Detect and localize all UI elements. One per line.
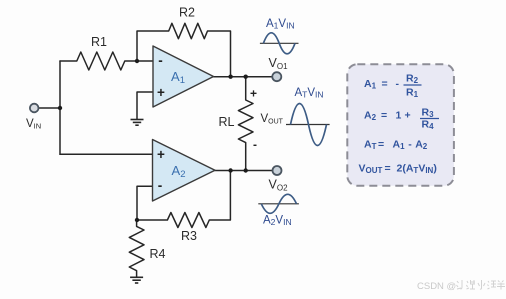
svg-text:+: + <box>157 85 165 100</box>
svg-text:-: - <box>396 78 400 90</box>
svg-text:=: = <box>385 163 391 175</box>
svg-text:-: - <box>158 53 163 68</box>
svg-text:+: + <box>250 87 257 101</box>
svg-text:A2VIN: A2VIN <box>263 215 292 228</box>
svg-text:R3: R3 <box>181 229 197 243</box>
svg-text:ATVIN: ATVIN <box>295 87 324 100</box>
svg-text:1: 1 <box>396 110 402 122</box>
svg-text:-: - <box>253 138 257 152</box>
svg-text:R1: R1 <box>91 35 107 49</box>
svg-text:=: = <box>382 78 388 90</box>
svg-text:+: + <box>405 110 411 122</box>
svg-text:R2: R2 <box>179 6 195 20</box>
svg-text:CSDN @: CSDN @ <box>417 281 456 292</box>
svg-text:=: = <box>381 110 387 122</box>
svg-text:A1VIN: A1VIN <box>266 18 295 31</box>
svg-text:+: + <box>157 147 165 162</box>
svg-text:RL: RL <box>219 115 235 129</box>
svg-text:R4: R4 <box>150 247 166 261</box>
svg-text:-: - <box>158 178 163 193</box>
svg-text:-: - <box>408 139 412 151</box>
svg-text:=: = <box>378 139 384 151</box>
